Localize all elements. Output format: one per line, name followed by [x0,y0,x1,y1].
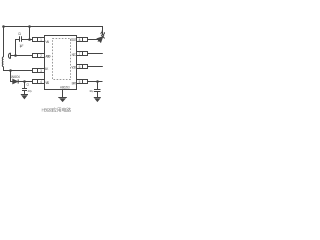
pin box pin8 [77,38,83,42]
svg-text:NTC: NTC [72,53,77,57]
LED D2 [96,34,106,44]
svg-text:C2: C2 [26,83,29,87]
pin box pin6 [77,65,83,69]
svg-text:AGND: AGND [45,55,51,59]
node rail-C1 [28,25,31,28]
pin box pin5 [77,80,83,84]
LED emission arrows [101,31,103,34]
wire node B down to capacitor C2 [24,82,26,89]
svg-text:7: 7 [79,52,81,56]
svg-text:5: 5 [79,80,81,84]
diode D1 1N4004 [13,79,18,83]
ground G1 [21,94,28,96]
svg-text:VSS: VSS [45,81,49,85]
capacitor C2 4.7uF [22,88,27,90]
labels [10,32,93,93]
svg-text:VIN: VIN [45,40,49,44]
ground G3 [94,97,101,99]
svg-text:3: 3 [40,69,42,73]
svg-text:HB6293应用电路: HB6293应用电路 [42,107,72,114]
wire pin5 BAT [88,81,103,83]
connector J1 spring contacts [2,57,3,67]
wire node D up to rail [29,27,31,40]
svg-text:VDD: VDD [71,65,76,69]
wire node E down to capacitor C3 [97,82,99,90]
svg-text:C1: C1 [18,32,21,36]
svg-text:1N4004: 1N4004 [10,75,20,79]
svg-text:10µ: 10µ [89,89,94,93]
capacitor C3 10uF [94,89,101,91]
wire C1 to node D [22,39,33,41]
svg-text:2: 2 [40,54,42,58]
IC inner dashed die box [53,39,71,80]
pin box pin1 [33,38,38,42]
node B [23,80,26,83]
node D [28,38,31,41]
wire plug to pin 2 [11,55,33,57]
wire C3 to ground [97,92,99,98]
wire pin7 open [88,53,103,55]
wire pin8 to LED [88,39,99,41]
pin box pin7 [77,52,83,56]
wire IC ground pad [62,90,64,98]
pin box pin3 [33,69,38,73]
ground G2 [58,97,67,99]
svg-text:8: 8 [79,38,81,42]
svg-text:STAT: STAT [70,38,76,42]
svg-text:4.7µ: 4.7µ [28,89,33,93]
junction dots [2,25,99,83]
node A [9,69,12,72]
wire pin6 open [88,66,103,68]
svg-text:4: 4 [40,80,42,84]
pin box pin2 [33,54,38,58]
node rail-left [2,25,5,28]
node C [14,54,17,57]
node E [96,80,99,83]
svg-text:1: 1 [40,38,42,42]
svg-text:BAT: BAT [72,81,77,85]
svg-text:1µF: 1µF [19,44,23,48]
pin box pin4 [33,80,38,84]
capacitor C1 1uF [19,36,21,42]
wire diode to node B [19,81,33,83]
plug P1 [8,53,9,59]
svg-text:ILK: ILK [45,67,49,71]
wire left rail [3,27,5,58]
wire jack bottom to node A [4,67,11,71]
wire node C up to capacitor C1 [16,40,20,56]
wire C2 to ground [24,91,26,95]
wire node A down to diode row [11,71,14,82]
IC U1 HB6293 body [45,36,77,90]
svg-text:6: 6 [79,65,81,69]
svg-text:HB6293: HB6293 [60,85,70,89]
wire node A to pin 3 [11,70,33,72]
wire top rail VIN [4,27,103,36]
